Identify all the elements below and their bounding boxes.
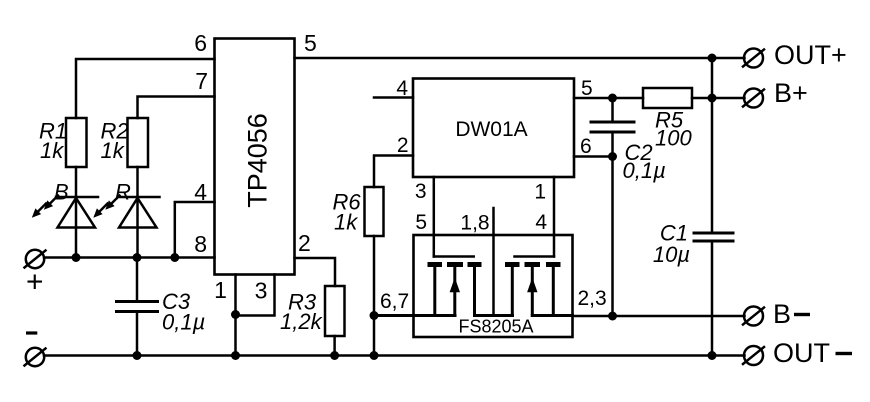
wire pin6 DW01A to C2: [574, 155, 613, 158]
svg-text:1k: 1k: [334, 210, 358, 235]
terminal -: [25, 348, 46, 366]
node B- / C2 line: [608, 312, 617, 321]
resistor R5: [643, 88, 692, 108]
wire common drain segment: [475, 314, 513, 317]
node 6,7: [370, 311, 379, 320]
resistor R6: [365, 187, 384, 236]
transistor Q2 (right MOSFET): [505, 257, 561, 316]
svg-text:4: 4: [194, 179, 207, 205]
terminal OUT+: [743, 49, 764, 68]
svg-text:5: 5: [581, 77, 593, 100]
LED B arrows: [32, 196, 58, 218]
svg-text:1: 1: [534, 181, 546, 204]
node B+ / C2: [608, 94, 617, 103]
svg-text:2,3: 2,3: [578, 287, 607, 310]
wire pin6 TP4056 to R1: [76, 59, 215, 118]
svg-text:4: 4: [535, 211, 547, 234]
svg-text:6: 6: [580, 135, 592, 158]
svg-text:100: 100: [655, 126, 692, 151]
svg-text:1,8: 1,8: [460, 212, 489, 235]
svg-text:6,7: 6,7: [380, 290, 409, 313]
wire R3 to OUT- rail: [333, 336, 336, 356]
wire pin5 TP4056 to OUT+: [295, 57, 745, 60]
resistor R2: [128, 118, 149, 167]
terminal B+: [743, 89, 764, 108]
node R3 / OUT- rail: [330, 351, 339, 360]
svg-text:+: +: [26, 266, 44, 299]
wire OUT+ vertical to B+ and C1: [711, 58, 714, 232]
node R5 / B+: [708, 94, 717, 103]
wire pin5 DW01A to B+: [574, 97, 643, 100]
wire OUT- rail: [44, 354, 745, 357]
node C3 / OUT- rail: [133, 351, 142, 360]
svg-text:0,1µ: 0,1µ: [623, 158, 666, 183]
svg-text:OUT+: OUT+: [774, 40, 847, 70]
capacitor C2: [591, 98, 634, 316]
IC U2 DW01A body: [413, 79, 574, 178]
wire pin2 TP4056 to R3: [295, 258, 336, 286]
wire source line 2,3 to B-: [532, 314, 572, 317]
svg-text:1,2k: 1,2k: [280, 309, 323, 334]
terminal OUT-: [743, 346, 764, 365]
wire pin7 TP4056 to R2: [138, 97, 215, 119]
capacitor C1: [694, 233, 733, 356]
svg-text:FS8205A: FS8205A: [458, 317, 533, 337]
svg-text:TP4056: TP4056: [243, 113, 273, 208]
svg-text:2: 2: [397, 134, 409, 157]
LED R (red): [118, 197, 160, 258]
node pins 1,3: [231, 310, 240, 319]
wire pins 1,3 TP4056 to ground rail: [236, 275, 275, 356]
wire plus rail: [44, 256, 215, 259]
svg-text:B: B: [773, 299, 791, 329]
wire pin4 TP4056 branch: [175, 202, 215, 258]
svg-text:7: 7: [195, 68, 208, 94]
wire R2 to LED R: [136, 167, 139, 197]
wire R1 to LED B: [75, 167, 78, 197]
svg-text:5: 5: [415, 211, 427, 234]
node TP4056 gnd / OUT- rail: [231, 351, 240, 360]
node LED R C3 / plus rail: [133, 253, 142, 262]
node LED B / plus rail: [72, 253, 81, 262]
LED R arrows: [93, 196, 119, 218]
transistor Q2 body arrow: [527, 278, 537, 293]
svg-text:B: B: [54, 180, 69, 205]
wire R6 to node 6,7: [373, 236, 376, 316]
wire R5 to B+: [692, 97, 745, 100]
LED B (blue): [56, 197, 98, 258]
node OUT+ / B+ vertical: [708, 54, 717, 63]
resistor R1: [66, 118, 87, 167]
transistor Q1 (left MOSFET): [428, 257, 482, 316]
node pin6 DW01A / C2: [608, 152, 617, 161]
IC U1 TP4056 body: [215, 39, 295, 275]
svg-text:1: 1: [214, 277, 227, 303]
terminal +: [25, 250, 46, 268]
svg-text:0,1µ: 0,1µ: [162, 310, 205, 335]
svg-text:10µ: 10µ: [653, 242, 690, 267]
wire pins 1,8 FS8205A common drain stub: [492, 208, 495, 316]
svg-text:3: 3: [255, 278, 268, 304]
wire node 6,7 to OUT- rail: [373, 316, 376, 356]
svg-text:3: 3: [415, 180, 427, 203]
svg-text:R: R: [115, 180, 131, 205]
svg-text:6: 6: [194, 30, 207, 56]
svg-text:5: 5: [304, 30, 317, 56]
wire pin3 DW01A to gate Q1: [433, 177, 436, 257]
svg-text:1k: 1k: [101, 138, 125, 163]
svg-text:4: 4: [396, 77, 408, 100]
capacitor C3: [117, 258, 158, 356]
svg-text:B+: B+: [774, 78, 808, 108]
node C1 / OUT- rail: [708, 351, 717, 360]
terminal B-: [743, 307, 764, 326]
svg-text:8: 8: [194, 231, 207, 257]
MOSFET block U3 FS8205A body: [414, 235, 573, 337]
transistor Q1 body arrow: [450, 278, 460, 293]
wire pin2 DW01A to R6: [374, 156, 413, 188]
node pin4 branch / plus rail: [170, 253, 179, 262]
wire B- line: [573, 315, 745, 318]
wire source line 6,7: [374, 314, 455, 317]
wire pin4 DW01A stub: [374, 96, 413, 99]
svg-text:DW01A: DW01A: [455, 118, 527, 141]
svg-text:OUT: OUT: [773, 338, 830, 368]
svg-text:1k: 1k: [40, 138, 64, 163]
svg-text:2: 2: [298, 230, 311, 256]
label -: [26, 331, 37, 334]
node R6 / OUT- rail: [370, 351, 379, 360]
wire pin1 DW01A to gate Q2: [553, 177, 556, 257]
resistor R3: [325, 286, 345, 336]
